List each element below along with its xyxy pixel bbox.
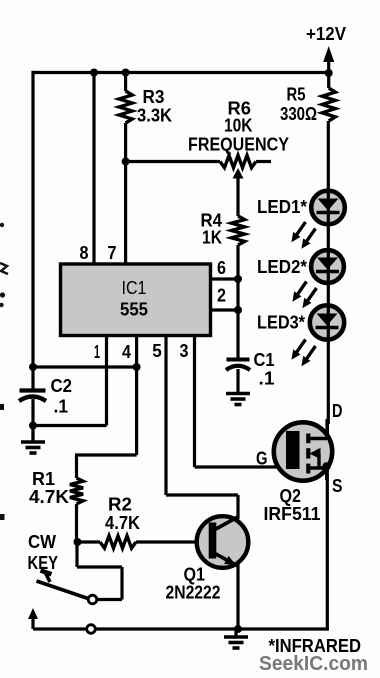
pin 6 label — [217, 258, 226, 278]
svg-text:5: 5 — [152, 341, 162, 361]
pin 8 label — [80, 243, 89, 263]
wire R1 to key junction — [75, 504, 78, 543]
node C2 bottom / pin1 junction — [29, 422, 37, 430]
svg-text:R1: R1 — [32, 469, 55, 489]
svg-text:S: S — [332, 476, 343, 496]
svg-text:.1: .1 — [54, 397, 69, 417]
label LED1 — [257, 197, 307, 217]
switch terminal lower — [87, 625, 96, 634]
node pin6 junction — [234, 275, 242, 283]
label S — [332, 476, 343, 496]
resistor R1 — [29, 469, 83, 507]
label IRF511 — [264, 504, 321, 524]
svg-text:D: D — [332, 401, 343, 421]
LED LED2 symbol — [316, 258, 339, 272]
wire R2 left lead — [77, 540, 100, 543]
node top bus pin7 junction — [122, 69, 130, 77]
wire top +12V bus — [32, 71, 330, 74]
LED2 light emission arrows — [292, 282, 316, 309]
label LED3 — [257, 313, 305, 333]
scan mark — [0, 223, 4, 227]
label D — [332, 401, 343, 421]
svg-text:R5: R5 — [287, 85, 306, 105]
label CW KEY — [28, 532, 59, 573]
svg-text:FREQUENCY: FREQUENCY — [188, 135, 289, 155]
svg-text:C1: C1 — [254, 350, 275, 370]
wire pin 6 stub — [210, 277, 238, 280]
pin 1 label — [94, 342, 100, 362]
LED LED2 body — [311, 250, 344, 283]
wire pin8 column — [92, 73, 95, 267]
ground under C1 — [226, 394, 250, 405]
wire pin7 / R3 column — [124, 73, 127, 267]
capacitor C1 — [226, 350, 275, 389]
transistor Q1 body — [197, 516, 249, 568]
wire pin 4 column down to R1 — [75, 336, 137, 479]
label Q1 — [184, 565, 206, 585]
svg-text:Q1: Q1 — [184, 565, 206, 585]
wire key upper path — [77, 542, 122, 600]
LED LED3 symbol — [316, 314, 339, 328]
wire pin4 tie bus — [33, 365, 137, 368]
scan mark — [0, 514, 5, 520]
wire right rail upper — [327, 73, 330, 89]
svg-text:2N2222: 2N2222 — [166, 583, 221, 603]
LED1 light emission arrows — [291, 222, 315, 249]
label INFRARED — [269, 636, 362, 656]
node +12V junction — [325, 69, 333, 77]
label FREQUENCY — [188, 135, 289, 155]
svg-text:IC1: IC1 — [122, 278, 147, 298]
transistor Q1 symbol — [209, 517, 239, 567]
wiper arrow of R6 — [233, 168, 244, 216]
svg-text:1K: 1K — [202, 228, 222, 248]
LED LED3 body — [310, 305, 344, 339]
svg-text:4.7K: 4.7K — [105, 513, 140, 533]
svg-text:10K: 10K — [224, 116, 253, 136]
capacitor C2 — [19, 376, 72, 417]
label Q2 — [280, 486, 302, 506]
svg-text:SeekIC.com: SeekIC.com — [259, 653, 368, 675]
node R3/R6 junction — [122, 158, 130, 166]
switch CW key lever — [37, 571, 89, 599]
wire bottom rail — [33, 627, 329, 630]
op-amp/timer IC1 555 box — [61, 264, 211, 336]
wire pin6/pin2/C1 column — [236, 245, 239, 359]
svg-text:LED1*: LED1* — [257, 197, 307, 217]
node left rail / pin4 wire junction — [29, 363, 37, 371]
svg-text:555: 555 — [120, 300, 148, 320]
svg-text:6: 6 — [217, 258, 226, 278]
scan mark — [0, 292, 5, 307]
svg-text:1: 1 — [94, 342, 100, 362]
wire pin 3 column to Q2 gate — [195, 336, 289, 468]
resistor R3 — [119, 87, 172, 126]
transistor Q2 body — [274, 422, 332, 480]
svg-text:C2: C2 — [51, 376, 73, 396]
label LED2 — [257, 257, 307, 277]
wire Q1 emitter down — [236, 564, 239, 629]
LED3 light emission arrows — [291, 340, 315, 367]
wire C1 to ground — [236, 369, 239, 393]
LED LED1 body — [311, 191, 345, 225]
svg-text:G: G — [256, 449, 268, 469]
ground bottom rail — [224, 629, 248, 648]
pin 4 label — [122, 342, 131, 362]
key return arrow — [28, 608, 38, 629]
power +12V arrow — [323, 46, 334, 73]
resistor R4 — [201, 211, 245, 248]
svg-text:2: 2 — [217, 286, 226, 306]
wire R2 to Q1 base — [136, 540, 210, 543]
wire pin 1 column — [33, 336, 107, 426]
svg-text:3: 3 — [180, 341, 189, 361]
wire R6 lead — [126, 160, 271, 163]
pin 7 label — [108, 243, 117, 263]
scan mark — [0, 263, 8, 274]
svg-text:+12V: +12V — [306, 24, 346, 44]
node Q2 source junction — [322, 462, 330, 470]
wire pin 2 stub — [210, 308, 238, 311]
resistor R2 — [100, 495, 140, 549]
node emitter / bottom rail junction — [234, 625, 242, 633]
node pin4 junction — [133, 363, 141, 371]
pin 5 label — [152, 341, 162, 361]
wire right rail through LEDs to Q2 drain — [327, 121, 330, 424]
node R1/R2/key junction — [74, 538, 82, 546]
wire pin 5 column to Q1 collector — [166, 336, 238, 520]
wire right rail Q2 source to bottom — [326, 466, 329, 630]
svg-text:LED2*: LED2* — [257, 257, 307, 277]
label SeekIC.com watermark — [259, 653, 368, 675]
svg-text:3.3K: 3.3K — [137, 106, 172, 126]
svg-text:KEY: KEY — [28, 553, 59, 573]
svg-text:330Ω: 330Ω — [280, 104, 317, 124]
svg-text:8: 8 — [80, 243, 89, 263]
label 2N2222 — [166, 583, 221, 603]
svg-text:4.7K: 4.7K — [29, 487, 69, 507]
pin 3 label — [180, 341, 189, 361]
svg-text:7: 7 — [108, 243, 117, 263]
label +12V — [306, 24, 346, 44]
node pin2 junction — [234, 306, 242, 314]
pin 2 label — [217, 286, 226, 306]
resistor R5 — [280, 85, 335, 125]
svg-text:R2: R2 — [108, 495, 132, 515]
svg-text:IRF511: IRF511 — [264, 504, 321, 524]
svg-text:LED3*: LED3* — [257, 313, 305, 333]
svg-text:R3: R3 — [143, 87, 165, 107]
svg-text:4: 4 — [122, 342, 131, 362]
wire left rail — [31, 71, 34, 441]
node top bus pin8 junction — [90, 69, 98, 77]
transistor Q2 MOSFET symbol — [286, 419, 327, 480]
svg-text:.1: .1 — [259, 369, 275, 389]
label G — [256, 449, 268, 469]
scan mark — [0, 404, 4, 410]
switch terminal upper — [88, 595, 97, 604]
potentiometer R6 — [220, 99, 256, 168]
svg-text:CW: CW — [28, 532, 56, 552]
ground below C2 — [21, 426, 45, 454]
LED LED1 symbol — [317, 199, 340, 213]
svg-text:Q2: Q2 — [280, 486, 302, 506]
